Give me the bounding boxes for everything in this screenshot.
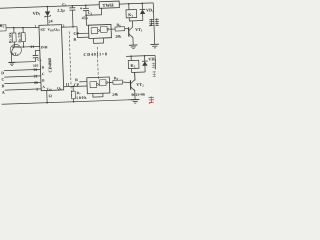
ground (VT1 emitter) [129, 45, 138, 49]
capacitor C5 103 [32, 50, 42, 68]
wire top supply rail right [119, 3, 153, 4]
diode VD2 [139, 2, 154, 20]
bus wire C pin 21 [1, 74, 41, 82]
wire R input upper [73, 33, 89, 42]
wire feedback U under upper gate box [93, 38, 103, 43]
transistor VT2 [130, 72, 145, 100]
ground (VT3 emitter) [8, 62, 15, 66]
svg-text:VT2: VT2 [136, 82, 144, 88]
transistor VT1 [128, 21, 143, 45]
svg-text:VD2: VD2 [146, 7, 154, 13]
bus wire B pin 20 [1, 81, 41, 89]
resistor R7 100k [71, 86, 87, 103]
svg-text:100k: 100k [76, 95, 87, 100]
IC U2 gate box upper [88, 24, 111, 38]
svg-text:1: 1 [34, 24, 36, 28]
svg-text:CP: CP [73, 31, 79, 36]
wire TWH output step [85, 8, 102, 16]
svg-text:D: D [1, 70, 4, 75]
wire load branch lower [154, 55, 156, 69]
svg-text:VDDQ10: VDDQ10 [48, 27, 61, 32]
wire bottom ground rail [2, 99, 136, 105]
capacitor C1 2.2u [57, 1, 76, 27]
svg-text:22: 22 [33, 68, 37, 72]
wire collector to pin 21 [17, 41, 40, 49]
svg-text:21: 21 [30, 45, 34, 49]
dashed chip link line between gate boxes [97, 47, 98, 79]
node CP upper [73, 31, 79, 36]
svg-text:24k: 24k [112, 92, 119, 96]
transistor VT3 [10, 42, 22, 63]
resistor R4 22k [17, 28, 25, 43]
svg-text:K2: K2 [130, 63, 135, 69]
svg-text:A: A [42, 85, 45, 89]
svg-text:CD4060: CD4060 [47, 58, 53, 73]
resistor R1 (edge component box) [0, 23, 6, 31]
IC U1 CD4060 main box [39, 25, 64, 92]
wire load branch upper [153, 3, 154, 44]
wire input node to IC pin 1 [6, 24, 39, 29]
svg-text:9013×06: 9013×06 [131, 93, 145, 97]
svg-text:12: 12 [48, 94, 52, 98]
svg-text:R: R [75, 77, 78, 82]
wire lower supply rail [126, 55, 155, 56]
bus wire A pin 2 [2, 87, 42, 95]
svg-text:VT1: VT1 [135, 27, 143, 33]
svg-text:20: 20 [34, 81, 38, 85]
svg-text:TWH: TWH [102, 3, 114, 8]
diode VD3 [142, 55, 157, 73]
wire feedback U under lower gate box [93, 93, 103, 97]
zener diode VD1 [32, 6, 52, 26]
svg-text:20k: 20k [115, 35, 122, 39]
IC U3 TWH power box [99, 1, 119, 8]
svg-text:CD4011×8: CD4011×8 [83, 51, 107, 57]
dashed chip boundary line left [69, 31, 71, 96]
svg-text:2.2μ: 2.2μ [57, 7, 65, 12]
bus wire D pin 22 [1, 68, 41, 76]
label load upper (CJK) [149, 18, 159, 26]
svg-text:C: C [1, 77, 4, 82]
svg-text:B: B [2, 83, 5, 88]
svg-text:D: D [42, 66, 45, 70]
svg-text:R6: R6 [116, 23, 121, 28]
wire IC pin 2 to oscillator [61, 22, 88, 34]
svg-text:C5: C5 [37, 58, 42, 63]
svg-text:CP: CP [74, 82, 80, 87]
svg-text:A: A [2, 90, 5, 95]
wire IC pin 11 to lower gates [63, 81, 87, 88]
ground (load upper) [150, 44, 159, 48]
wire ground to C5 [12, 61, 36, 64]
svg-text:2: 2 [36, 87, 38, 91]
svg-text:C: C [42, 72, 45, 76]
wire top supply rail left [0, 5, 99, 9]
svg-text:R4 22k: R4 22k [17, 31, 21, 43]
svg-text:ST: ST [40, 27, 45, 32]
capacitor C2 47u [80, 4, 93, 25]
svg-text:Q4: Q4 [57, 86, 62, 91]
svg-text:11: 11 [66, 82, 70, 87]
relay K2 [128, 55, 145, 80]
resistor R8 24k [109, 76, 131, 97]
svg-text:VT3: VT3 [12, 52, 19, 57]
resistor R3 51k [8, 28, 16, 43]
wire IC pin 12 Vss to ground [47, 90, 53, 102]
svg-text:21: 21 [34, 74, 38, 78]
IC U4 gate box lower [87, 77, 110, 94]
svg-text:VSS: VSS [46, 87, 52, 92]
svg-text:R1: R1 [0, 23, 4, 29]
ground (main rail end) [131, 99, 140, 103]
svg-text:R8: R8 [114, 76, 119, 81]
svg-text:R: R [73, 37, 76, 42]
svg-text:K1: K1 [128, 12, 133, 18]
svg-text:INH: INH [41, 45, 48, 49]
svg-text:B: B [42, 79, 45, 83]
resistor R6 20k [111, 23, 129, 39]
svg-text:24: 24 [49, 18, 53, 23]
red stamp mark [148, 96, 154, 104]
svg-text:R3 51k: R3 51k [8, 31, 12, 43]
svg-text:47μ: 47μ [82, 16, 89, 20]
label load lower (CJK) [152, 62, 157, 77]
svg-text:VD1: VD1 [32, 11, 41, 17]
relay K1 [126, 2, 143, 21]
